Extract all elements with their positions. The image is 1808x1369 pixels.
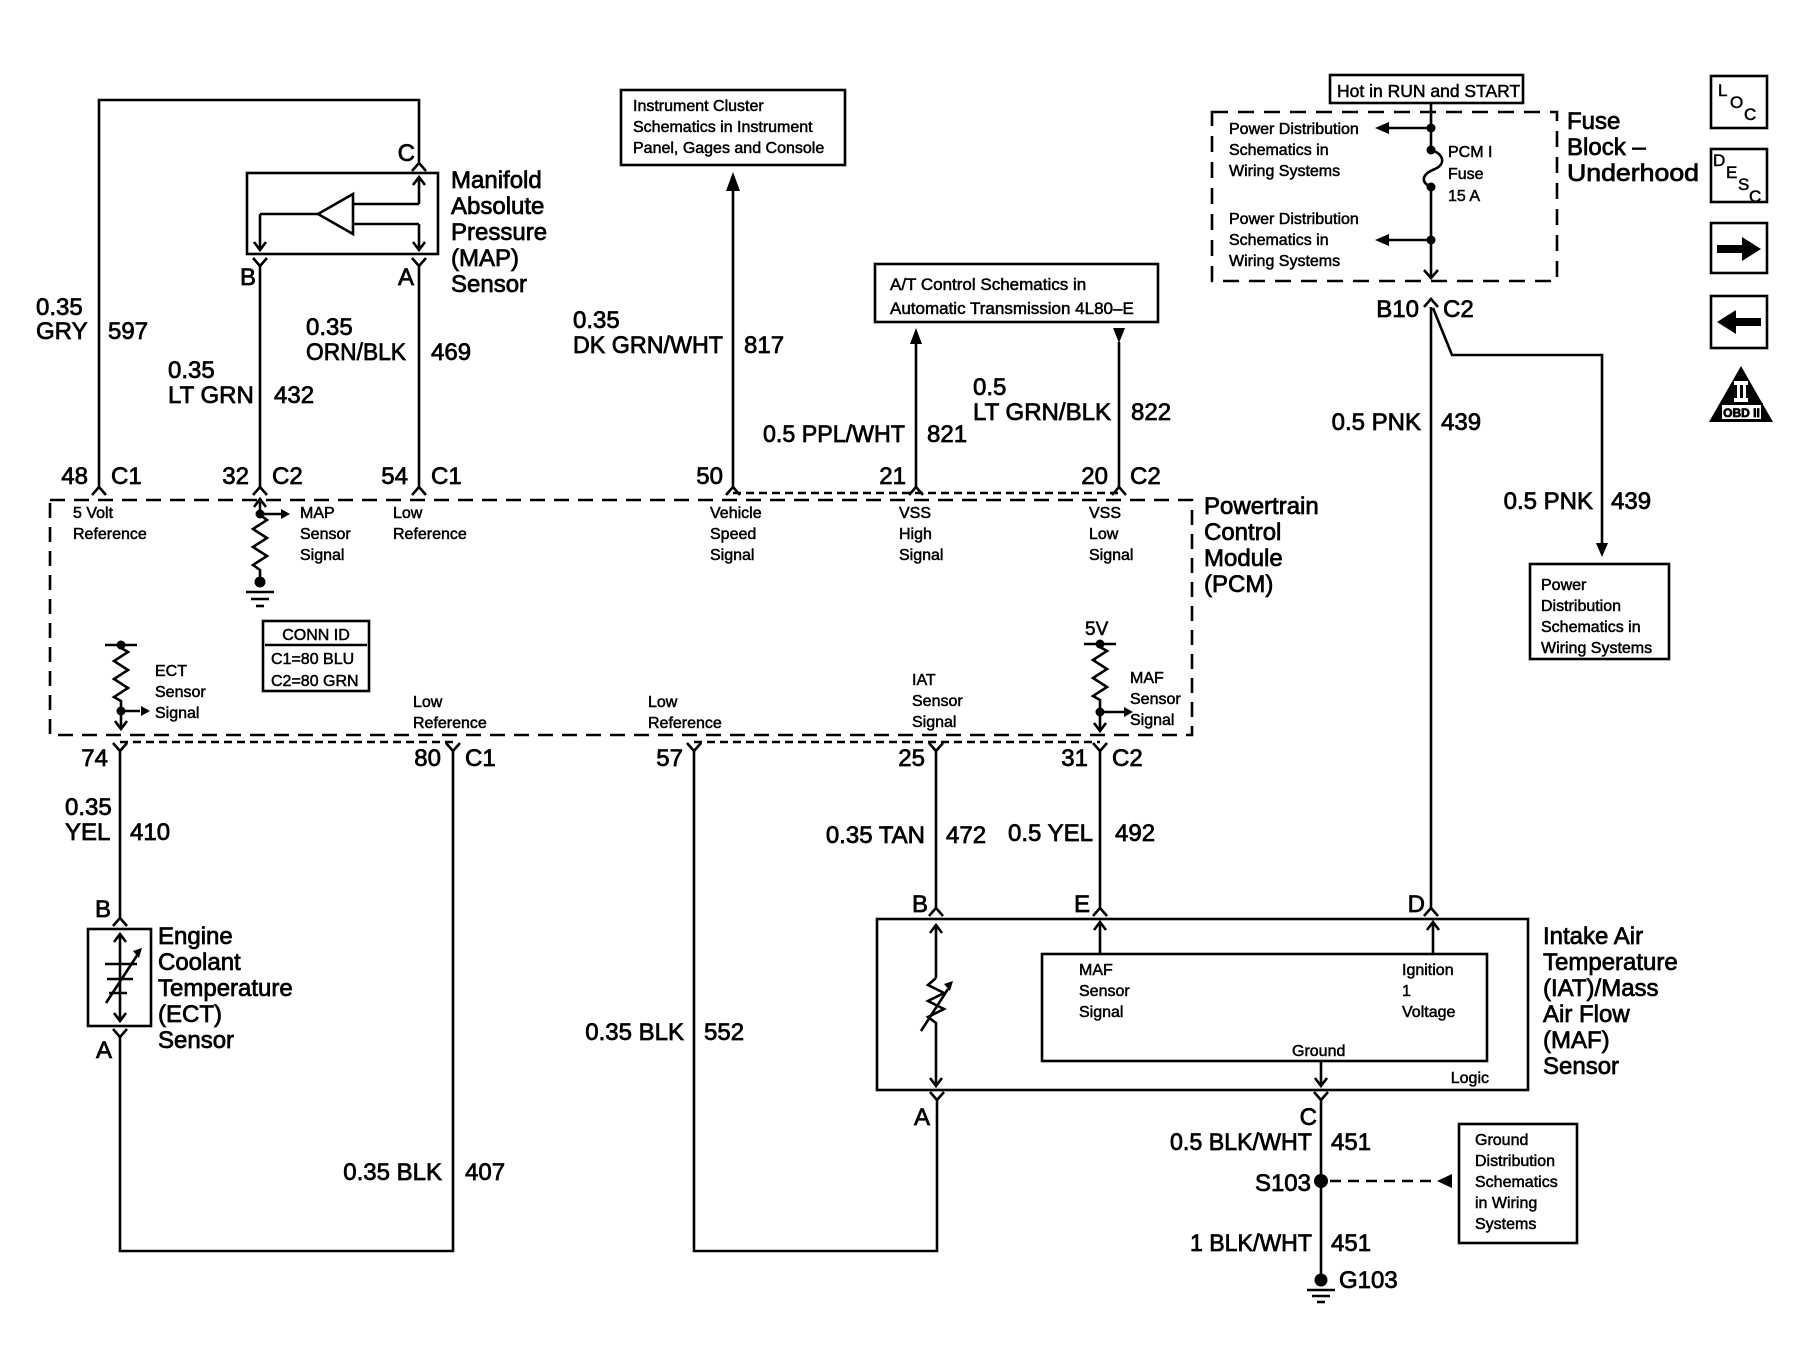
svg-text:21: 21	[879, 463, 906, 490]
svg-text:Pressure: Pressure	[451, 219, 547, 246]
svg-text:A/T Control Schematics in: A/T Control Schematics in	[890, 275, 1086, 294]
node A (IAT pin A)	[930, 1092, 944, 1100]
ECT label	[158, 923, 293, 1054]
svg-text:5V: 5V	[1085, 619, 1109, 640]
svg-text:Wiring Systems: Wiring Systems	[1229, 253, 1340, 270]
wire 410 (pin 74 to ECT pin B)	[119, 751, 122, 918]
svg-text:C2: C2	[1130, 463, 1161, 490]
MAP output wire to pin B	[254, 214, 318, 250]
svg-text:Low: Low	[413, 694, 443, 711]
svg-text:Sensor: Sensor	[155, 684, 206, 701]
wire label 0.35 DK GRN/WHT 817	[573, 307, 784, 359]
svg-text:C: C	[398, 140, 415, 167]
connector face dashed line C2 bottom	[694, 741, 1100, 744]
svg-text:Ignition: Ignition	[1402, 962, 1454, 979]
svg-text:439: 439	[1611, 488, 1651, 515]
svg-text:(MAP): (MAP)	[451, 245, 519, 272]
wire pin E into logic	[1094, 922, 1106, 954]
svg-text:Schematics in Instrument: Schematics in Instrument	[633, 119, 813, 136]
wire label 0.5 BLK/WHT 451	[1170, 1129, 1371, 1156]
svg-text:C2: C2	[1443, 296, 1474, 323]
svg-text:5 Volt: 5 Volt	[73, 505, 114, 522]
ECT sensor signal circuit inside PCM	[105, 645, 140, 729]
svg-text:Power Distribution: Power Distribution	[1229, 121, 1359, 138]
pin 31 C2	[1093, 743, 1107, 751]
svg-text:Module: Module	[1204, 545, 1283, 572]
Fuse Block label	[1567, 108, 1699, 187]
svg-text:451: 451	[1331, 1230, 1371, 1257]
wire label 0.5 YEL 492	[1008, 820, 1155, 847]
svg-text:54: 54	[381, 463, 408, 490]
svg-text:PCM I: PCM I	[1448, 144, 1492, 161]
pin 48 C1	[92, 487, 106, 495]
svg-text:E: E	[1074, 891, 1090, 918]
wire label 0.35 BLK 552	[585, 1019, 744, 1046]
wire 552 (PCM pin 57 to IAT pin A)	[694, 751, 937, 1251]
svg-text:MAF: MAF	[1130, 670, 1164, 687]
svg-text:Sensor: Sensor	[1079, 983, 1130, 1000]
svg-text:Signal: Signal	[710, 547, 754, 564]
svg-text:C: C	[1749, 187, 1761, 206]
svg-text:0.35 BLK: 0.35 BLK	[343, 1159, 442, 1186]
node B (IAT pin B)	[929, 908, 943, 916]
wire below fuse	[1430, 187, 1433, 278]
svg-text:A: A	[96, 1037, 112, 1064]
5V node and MAF sensor signal circuit inside PCM	[1085, 619, 1109, 640]
svg-text:Signal: Signal	[912, 714, 956, 731]
svg-text:Schematics: Schematics	[1475, 1174, 1558, 1191]
svg-text:48: 48	[61, 463, 88, 490]
wire 439 branch to power distribution	[1433, 308, 1602, 543]
ECT sensor box	[88, 929, 151, 1026]
svg-text:Absolute: Absolute	[451, 193, 544, 220]
wire 439 main (B10 down to IAT pin D)	[1430, 307, 1433, 908]
svg-text:0.35: 0.35	[36, 294, 83, 321]
pin 54 C1	[412, 487, 426, 495]
svg-text:Reference: Reference	[648, 715, 722, 732]
wire label 0.35 YEL 410	[65, 794, 170, 846]
VSS high signal label	[899, 505, 943, 564]
wire 407 (ECT A to PCM pin 80)	[120, 751, 453, 1251]
svg-text:Reference: Reference	[413, 715, 487, 732]
node A (MAP pin A)	[412, 258, 426, 266]
svg-text:Panel, Gages and Console: Panel, Gages and Console	[633, 140, 824, 157]
svg-text:31: 31	[1061, 745, 1088, 772]
wire from hot feed into fuse	[1430, 103, 1433, 152]
low reference label (pin 54)	[393, 505, 467, 543]
svg-text:Powertrain: Powertrain	[1204, 493, 1319, 520]
fuse PCM I 15A	[1424, 150, 1442, 187]
connector face dashed line C1 bottom	[120, 741, 453, 744]
svg-text:C2=80 GRN: C2=80 GRN	[271, 673, 359, 690]
svg-text:1 BLK/WHT: 1 BLK/WHT	[1190, 1230, 1312, 1257]
logic label	[1451, 1070, 1489, 1087]
ground label (logic)	[1292, 1043, 1345, 1060]
svg-text:Voltage: Voltage	[1402, 1004, 1455, 1021]
svg-text:C1: C1	[111, 463, 142, 490]
svg-text:IAT: IAT	[912, 672, 936, 689]
svg-text:C1=80 BLU: C1=80 BLU	[271, 651, 354, 668]
wire 817 (PCM pin 50 to instrument cluster)	[732, 190, 735, 487]
svg-text:L: L	[1718, 81, 1727, 100]
node D (IAT pin D)	[1424, 908, 1438, 916]
low reference label (pin 57)	[648, 694, 722, 732]
svg-text:Automatic Transmission 4L80–E: Automatic Transmission 4L80–E	[890, 299, 1134, 318]
vehicle speed signal label	[710, 505, 762, 564]
low reference label (pin 80)	[413, 694, 487, 732]
svg-text:E: E	[1726, 163, 1737, 182]
wire 821 (PCM pin 21 VSS high to A/T box)	[915, 344, 918, 487]
svg-text:0.5 PNK: 0.5 PNK	[1504, 488, 1593, 515]
thermistor RT2 (IAT element)	[921, 925, 948, 1086]
ground wire out of logic box	[1315, 1061, 1327, 1086]
icon back arrow box	[1711, 296, 1767, 348]
arrow to power distribution (upper)	[1389, 127, 1431, 130]
svg-text:(IAT)/Mass: (IAT)/Mass	[1543, 975, 1659, 1002]
wire label 0.35 GRY 597	[36, 294, 148, 345]
svg-text:Ground: Ground	[1475, 1132, 1528, 1149]
svg-text:YEL: YEL	[65, 819, 110, 846]
svg-text:C2: C2	[272, 463, 303, 490]
svg-text:Control: Control	[1204, 519, 1281, 546]
svg-text:C1: C1	[431, 463, 462, 490]
svg-text:Signal: Signal	[1130, 712, 1174, 729]
svg-text:410: 410	[130, 819, 170, 846]
VSS low signal label	[1089, 505, 1133, 564]
wire label 0.35 TAN 472	[826, 822, 986, 849]
svg-text:S: S	[1738, 175, 1749, 194]
A/T Control reference box	[875, 264, 1158, 322]
svg-text:0.5 YEL: 0.5 YEL	[1008, 820, 1093, 847]
svg-text:552: 552	[704, 1019, 744, 1046]
node E (IAT pin E)	[1093, 908, 1107, 916]
IAT sensor signal label	[912, 672, 963, 731]
arrowhead at fuse block exit	[1424, 270, 1438, 278]
svg-text:Distribution: Distribution	[1475, 1153, 1555, 1170]
svg-text:OBD II: OBD II	[1723, 406, 1760, 420]
PCM dashed box	[50, 500, 1192, 735]
svg-text:Speed: Speed	[710, 526, 756, 543]
svg-text:in Wiring: in Wiring	[1475, 1195, 1537, 1212]
pin 25	[929, 743, 943, 751]
wire label 0.35 LT GRN 432	[168, 357, 314, 409]
svg-text:Sensor: Sensor	[1543, 1053, 1619, 1080]
svg-text:Distribution: Distribution	[1541, 598, 1621, 615]
Hot in RUN and START box	[1330, 75, 1523, 103]
svg-text:Intake Air: Intake Air	[1543, 923, 1643, 950]
svg-text:Sensor: Sensor	[451, 271, 527, 298]
svg-text:Low: Low	[648, 694, 678, 711]
PCM label	[1204, 493, 1319, 598]
svg-text:Sensor: Sensor	[158, 1027, 234, 1054]
svg-text:Sensor: Sensor	[300, 526, 351, 543]
wire label 0.35 BLK 407	[343, 1159, 505, 1186]
wire label 0.5 PPL/WHT 821	[763, 421, 967, 448]
pin 57	[687, 743, 701, 751]
svg-text:432: 432	[274, 382, 314, 409]
ground G103	[1315, 1274, 1328, 1287]
Instrument Cluster reference box	[621, 90, 845, 165]
svg-text:Signal: Signal	[1079, 1004, 1123, 1021]
svg-text:Low: Low	[393, 505, 423, 522]
MAF logic box	[1042, 954, 1487, 1061]
wire 451 (IAT pin C to G103)	[1320, 1100, 1323, 1276]
svg-text:Temperature: Temperature	[158, 975, 293, 1002]
svg-text:Vehicle: Vehicle	[710, 505, 762, 522]
wire label 0.5 LT GRN/BLK 822	[973, 374, 1171, 426]
svg-text:CONN ID: CONN ID	[282, 627, 350, 644]
svg-text:50: 50	[696, 463, 723, 490]
svg-text:Signal: Signal	[899, 547, 943, 564]
svg-text:(PCM): (PCM)	[1204, 571, 1273, 598]
IAT/MAF sensor box	[877, 919, 1528, 1090]
svg-text:Sensor: Sensor	[1130, 691, 1181, 708]
svg-text:Reference: Reference	[393, 526, 467, 543]
dashed reference wire from S103	[1330, 1180, 1432, 1183]
wire 822 (A/T box to PCM pin 20 VSS low)	[1118, 342, 1121, 487]
CONN ID table	[263, 621, 369, 691]
svg-text:597: 597	[108, 318, 148, 345]
svg-text:Underhood: Underhood	[1567, 160, 1699, 187]
svg-text:VSS: VSS	[899, 505, 931, 522]
wire label 0.5 PNK 439 (branch)	[1504, 488, 1651, 515]
svg-text:Low: Low	[1089, 526, 1119, 543]
svg-text:A: A	[398, 264, 414, 291]
svg-text:Signal: Signal	[155, 705, 199, 722]
svg-text:Schematics in: Schematics in	[1229, 142, 1329, 159]
svg-text:Systems: Systems	[1475, 1216, 1536, 1233]
svg-text:C2: C2	[1112, 745, 1143, 772]
svg-text:B: B	[912, 891, 928, 918]
MAP low ref wire to pin A	[353, 224, 425, 250]
svg-text:Block –: Block –	[1567, 134, 1646, 161]
svg-text:407: 407	[465, 1159, 505, 1186]
svg-text:0.5 PPL/WHT: 0.5 PPL/WHT	[763, 421, 905, 448]
svg-text:Air Flow: Air Flow	[1543, 1001, 1630, 1028]
svg-text:469: 469	[431, 339, 471, 366]
svg-text:Schematics in: Schematics in	[1541, 619, 1641, 636]
svg-text:LT GRN/BLK: LT GRN/BLK	[973, 399, 1111, 426]
svg-text:0.35 BLK: 0.35 BLK	[585, 1019, 684, 1046]
arrow to power distribution (lower)	[1389, 239, 1431, 242]
svg-text:Reference: Reference	[73, 526, 147, 543]
connector face dashed line C2 top	[733, 492, 1119, 495]
wire 432 (MAP B to PCM pin 32)	[259, 266, 262, 487]
svg-text:822: 822	[1131, 399, 1171, 426]
svg-text:A: A	[914, 1104, 930, 1131]
svg-text:Fuse: Fuse	[1448, 166, 1484, 183]
svg-text:B10: B10	[1376, 296, 1419, 323]
wire 469 (MAP A to PCM pin 54)	[418, 266, 421, 487]
svg-text:451: 451	[1331, 1129, 1371, 1156]
svg-text:439: 439	[1441, 409, 1481, 436]
svg-text:1: 1	[1402, 983, 1411, 1000]
MAP sensor box U-MAP	[247, 173, 438, 254]
svg-text:VSS: VSS	[1089, 505, 1121, 522]
pin 50	[726, 487, 740, 495]
MAF sensor signal label (logic)	[1079, 962, 1130, 1021]
svg-text:0.5 PNK: 0.5 PNK	[1332, 409, 1421, 436]
svg-text:ECT: ECT	[155, 663, 187, 680]
icon LOC box	[1711, 76, 1767, 128]
svg-text:20: 20	[1081, 463, 1108, 490]
svg-text:High: High	[899, 526, 932, 543]
svg-text:D: D	[1713, 151, 1725, 170]
MAP label	[451, 167, 547, 298]
Power Distribution reference box	[1530, 564, 1669, 659]
node B (ECT pin B)	[113, 918, 127, 926]
pin 74	[113, 743, 127, 751]
svg-text:817: 817	[744, 332, 784, 359]
svg-text:0.35 TAN: 0.35 TAN	[826, 822, 925, 849]
svg-text:DK GRN/WHT: DK GRN/WHT	[573, 332, 723, 359]
svg-text:Sensor: Sensor	[912, 693, 963, 710]
pin 20 C2	[1112, 487, 1126, 495]
svg-text:MAF: MAF	[1079, 962, 1113, 979]
svg-text:57: 57	[656, 745, 683, 772]
svg-text:25: 25	[898, 745, 925, 772]
node C (MAP connector pin C)	[412, 163, 426, 171]
MAP sensor signal circuit inside PCM	[253, 499, 281, 578]
svg-text:74: 74	[81, 745, 108, 772]
svg-text:472: 472	[946, 822, 986, 849]
svg-text:ORN/BLK: ORN/BLK	[306, 339, 406, 366]
svg-text:C1: C1	[465, 745, 496, 772]
pin 32 C2	[253, 487, 267, 495]
svg-text:0.35: 0.35	[306, 314, 353, 341]
svg-text:0.35: 0.35	[65, 794, 112, 821]
svg-text:G103: G103	[1339, 1267, 1398, 1294]
svg-text:15 A: 15 A	[1448, 188, 1480, 205]
pin 21	[909, 487, 923, 495]
svg-text:C: C	[1744, 105, 1756, 124]
Ground Distribution reference box	[1459, 1124, 1577, 1243]
wire label 1 BLK/WHT 451	[1190, 1230, 1371, 1257]
splice S103	[1314, 1174, 1328, 1188]
svg-text:(ECT): (ECT)	[158, 1001, 222, 1028]
svg-text:B: B	[95, 896, 111, 923]
wire 492 (PCM pin 31 to IAT pin E)	[1099, 751, 1102, 908]
wire label 0.35 ORN/BLK 469	[306, 314, 471, 366]
node C (IAT pin C)	[1314, 1092, 1328, 1100]
icon DESC box	[1711, 149, 1767, 202]
wire label 0.5 PNK 439	[1332, 409, 1481, 436]
svg-text:O: O	[1730, 93, 1743, 112]
svg-text:C: C	[1300, 1104, 1317, 1131]
ground (MAP signal pull-down)	[255, 577, 266, 588]
icon OBD II triangle	[1709, 366, 1773, 422]
svg-text:S103: S103	[1255, 1170, 1311, 1197]
svg-text:Engine: Engine	[158, 923, 233, 950]
Fuse Block dashed box	[1212, 112, 1557, 281]
svg-text:Wiring Systems: Wiring Systems	[1541, 640, 1652, 657]
svg-text:GRY: GRY	[36, 318, 88, 345]
svg-text:D: D	[1408, 891, 1425, 918]
svg-text:Wiring Systems: Wiring Systems	[1229, 163, 1340, 180]
thermistor RT1 (ECT element)	[105, 934, 138, 1021]
IAT label	[1543, 923, 1678, 1080]
pin 80 C1	[446, 743, 460, 751]
svg-text:0.5: 0.5	[973, 374, 1006, 401]
svg-text:0.5 BLK/WHT: 0.5 BLK/WHT	[1170, 1129, 1312, 1156]
node A (ECT pin A)	[113, 1029, 127, 1037]
svg-text:MAP: MAP	[300, 505, 335, 522]
wire 472 (PCM pin 25 to IAT pin B)	[935, 751, 938, 908]
svg-text:Signal: Signal	[300, 547, 344, 564]
svg-text:Signal: Signal	[1089, 547, 1133, 564]
svg-text:(MAF): (MAF)	[1543, 1027, 1610, 1054]
svg-text:80: 80	[414, 745, 441, 772]
svg-text:Logic: Logic	[1451, 1070, 1489, 1087]
svg-text:821: 821	[927, 421, 967, 448]
svg-text:492: 492	[1115, 820, 1155, 847]
svg-text:Ground: Ground	[1292, 1043, 1345, 1060]
5 volt reference label	[73, 505, 147, 543]
svg-text:32: 32	[222, 463, 249, 490]
svg-text:Fuse: Fuse	[1567, 108, 1620, 135]
MAP sensor internal supply wire from pin C	[353, 177, 425, 204]
op-amp U1 (MAP amplifier triangle)	[318, 194, 353, 234]
svg-text:0.35: 0.35	[168, 357, 215, 384]
svg-text:Manifold: Manifold	[451, 167, 542, 194]
icon forward arrow box	[1711, 223, 1767, 273]
svg-text:0.35: 0.35	[573, 307, 620, 334]
svg-text:Temperature: Temperature	[1543, 949, 1678, 976]
node B (MAP pin B)	[253, 258, 267, 266]
svg-text:Power Distribution: Power Distribution	[1229, 211, 1359, 228]
svg-text:LT GRN: LT GRN	[168, 382, 254, 409]
wire 597 (5V reference loop from PCM pin 48 to MAP pin C)	[99, 100, 419, 487]
ignition 1 voltage label (logic)	[1402, 962, 1455, 1021]
svg-text:Power: Power	[1541, 577, 1587, 594]
svg-text:Hot in RUN and START: Hot in RUN and START	[1337, 81, 1520, 101]
wire pin D into logic	[1427, 922, 1439, 954]
svg-text:B: B	[240, 264, 256, 291]
node B10 C2	[1424, 299, 1438, 307]
svg-text:Schematics in: Schematics in	[1229, 232, 1329, 249]
svg-text:Coolant: Coolant	[158, 949, 241, 976]
svg-text:Instrument Cluster: Instrument Cluster	[633, 98, 764, 115]
